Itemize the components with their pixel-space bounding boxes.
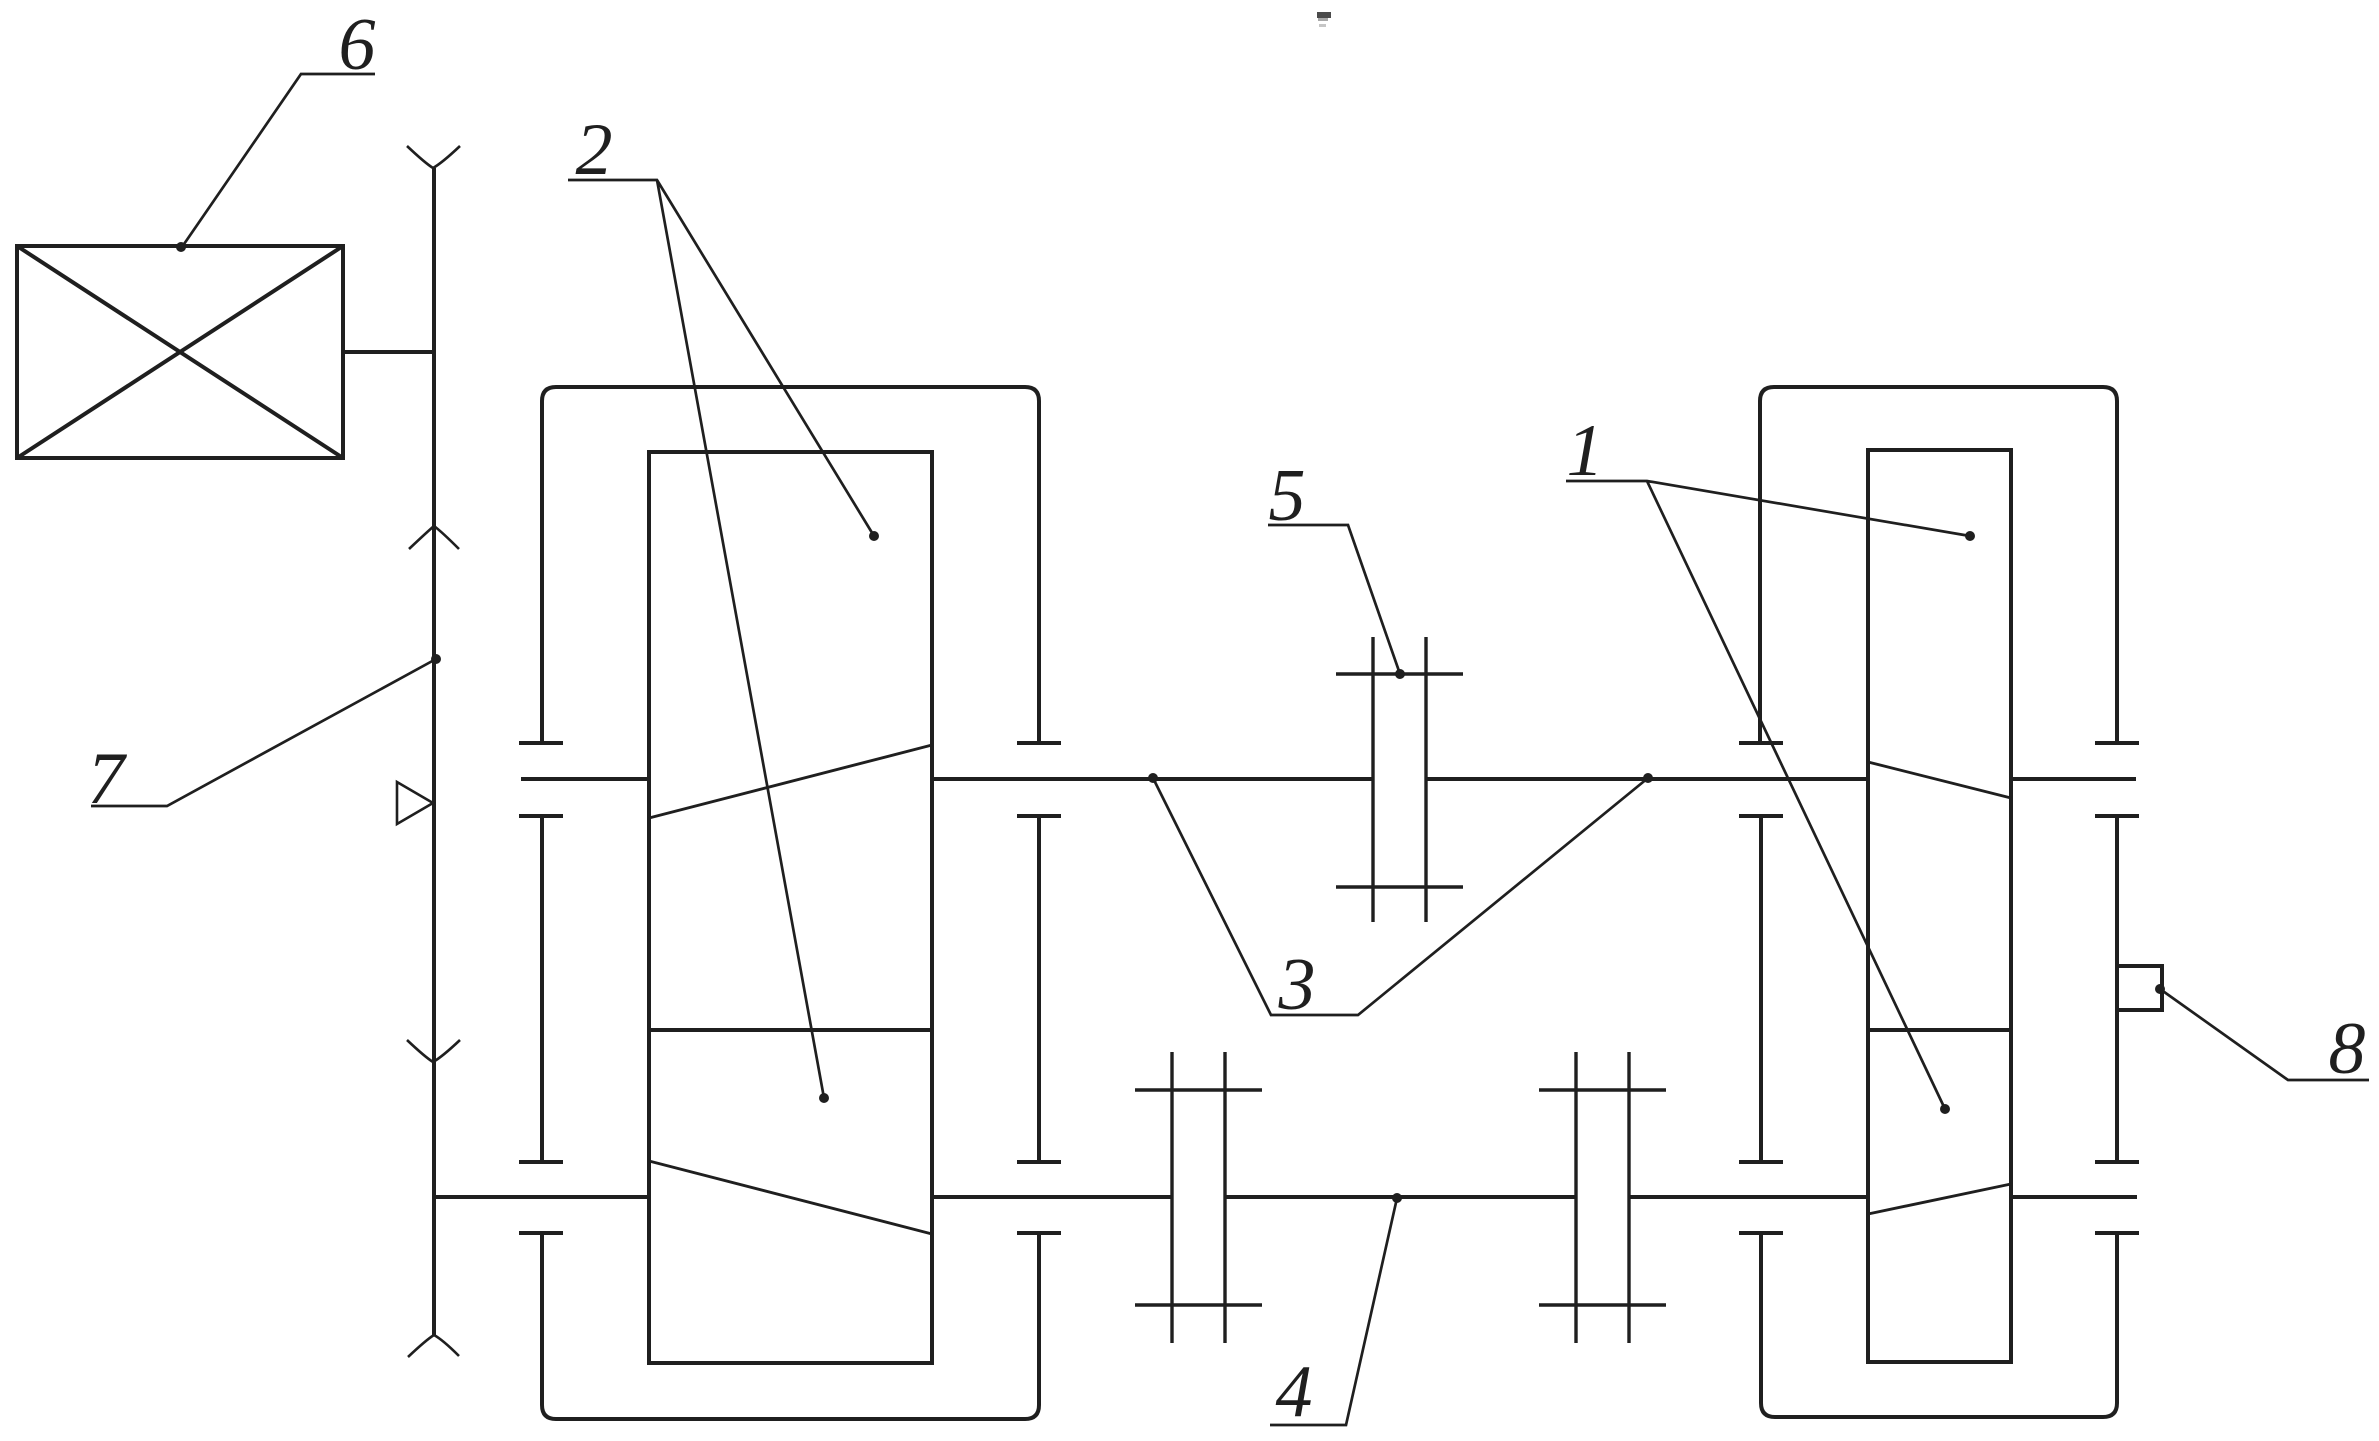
svg-text:5: 5: [1269, 455, 1306, 537]
svg-text:2: 2: [576, 109, 613, 191]
svg-text:8: 8: [2329, 1008, 2366, 1090]
svg-text:1: 1: [1567, 410, 1604, 492]
svg-text:3: 3: [1278, 944, 1316, 1026]
svg-text:6: 6: [339, 4, 376, 86]
svg-text:7: 7: [88, 738, 128, 820]
svg-text:4: 4: [1276, 1351, 1313, 1433]
